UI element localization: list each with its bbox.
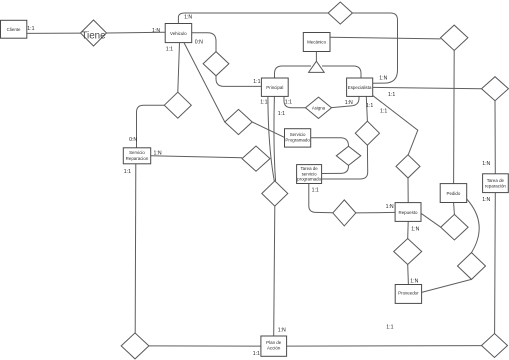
svg-text:1:N: 1:N <box>482 161 490 167</box>
relationship diamond D6 <box>328 2 352 24</box>
entity Especialista <box>347 78 373 96</box>
entity Pedido <box>440 184 467 203</box>
relationship diamond D11 <box>242 146 270 171</box>
wire Asigna to Especialista bottom <box>332 96 360 107</box>
svg-text:1:1: 1:1 <box>388 92 395 98</box>
wire Cliente-Tiene <box>27 32 81 34</box>
wire D6 to Especialista right <box>352 13 397 83</box>
svg-text:Acción: Acción <box>267 346 281 351</box>
svg-text:1:1: 1:1 <box>366 103 373 109</box>
ISA triangle <box>309 61 325 72</box>
svg-text:1:N: 1:N <box>411 226 419 232</box>
wire Vehiculo top to diamond D6 <box>178 13 328 24</box>
svg-text:1:N: 1:N <box>152 28 160 34</box>
svg-text:Servicio: Servicio <box>290 132 306 137</box>
svg-text:Especialista: Especialista <box>348 85 372 90</box>
relationship diamond D7 <box>441 25 468 50</box>
wire Especialista to D10 <box>366 96 367 121</box>
svg-text:Pedido: Pedido <box>446 191 460 196</box>
svg-text:1:N: 1:N <box>345 100 353 106</box>
svg-text:Asigna: Asigna <box>312 106 326 111</box>
svg-text:1:1: 1:1 <box>253 351 260 357</box>
wire Tiene-Vehiculo <box>107 31 166 34</box>
relationship Asigna <box>306 97 332 118</box>
wire D2 to Principal left <box>216 76 261 87</box>
wire Tarea servicio bottom to D13 <box>309 184 333 213</box>
wire D8 to Tarea reparacion top <box>494 101 496 174</box>
svg-text:1:N: 1:N <box>278 327 286 333</box>
svg-text:1:N: 1:N <box>386 204 394 210</box>
wire D18 to Plan right <box>287 345 482 348</box>
wire D4 to Servicio Programado <box>252 122 284 137</box>
wire D12 to Plan top <box>274 206 275 336</box>
wire triangle to Principal top <box>275 66 312 78</box>
entity Proveedor <box>395 285 421 304</box>
relationship diamond D10 <box>355 121 379 145</box>
relationship diamond D18 <box>482 334 508 358</box>
wire Vehiculo to D4 diagonal <box>184 43 225 122</box>
svg-text:1:N: 1:N <box>379 76 387 82</box>
relationship diamond D13 <box>333 200 356 226</box>
svg-text:1:1: 1:1 <box>27 26 34 32</box>
wire D7 to Pedido top <box>453 51 456 184</box>
svg-text:1:1: 1:1 <box>285 100 292 106</box>
svg-text:Servicio: Servicio <box>129 150 145 155</box>
relationship Tiene <box>81 20 107 46</box>
relationship diamond D3 <box>164 92 191 118</box>
entity Tarea de reparacion <box>483 174 509 193</box>
relationship diamond D2 <box>203 52 229 76</box>
svg-text:Tarea de: Tarea de <box>300 166 318 171</box>
svg-text:1:N: 1:N <box>184 14 192 20</box>
svg-text:1:N: 1:N <box>154 150 162 156</box>
wire Repuesto bottom to D17 <box>407 221 410 238</box>
wire Servicio Programado to D9 <box>311 138 349 147</box>
wire Pedido right to D16 curve <box>467 199 479 253</box>
svg-text:Vehiculo: Vehiculo <box>170 31 187 36</box>
wire Plan left to D19 <box>149 345 261 347</box>
wire D15 to Repuesto right <box>421 213 441 227</box>
svg-text:Tiene: Tiene <box>81 31 106 42</box>
relationship diamond D15 <box>441 214 468 240</box>
relationship diamond D9 <box>336 146 361 165</box>
wire Mecanico to triangle <box>315 52 317 62</box>
entity Vehiculo <box>165 24 192 43</box>
svg-text:Principal: Principal <box>266 85 283 90</box>
wire Vehiculo bottom to D3 <box>178 43 180 93</box>
svg-text:1:1: 1:1 <box>166 47 173 53</box>
svg-text:servicio: servicio <box>302 171 318 176</box>
wire D14 to Repuesto top <box>407 178 409 203</box>
wire triangle to Especialista top <box>322 66 361 78</box>
wire D19 to Servicio Reparacion bottom <box>134 164 137 333</box>
svg-text:0:N: 0:N <box>129 137 137 143</box>
wire D9 to Tarea servicio right upper <box>322 165 349 173</box>
svg-text:1:N: 1:N <box>482 197 490 203</box>
wire D10 to Tarea servicio right lower <box>322 145 368 179</box>
svg-text:1:1: 1:1 <box>260 100 267 106</box>
wire D3 to Servicio Reparacion top <box>137 105 165 148</box>
wire Principal to D12 double line a <box>268 96 274 181</box>
wire Servicio Reparacion to D11 <box>151 156 242 158</box>
wire Tarea reparacion bottom to D18 <box>494 193 497 334</box>
wire Vehiculo right to D2 <box>192 33 216 52</box>
svg-text:1:1: 1:1 <box>386 325 393 331</box>
svg-text:Reparacion: Reparacion <box>126 156 149 161</box>
svg-text:Mecánico: Mecánico <box>307 40 327 45</box>
svg-text:Plan de: Plan de <box>266 340 282 345</box>
svg-text:1:N: 1:N <box>410 278 418 284</box>
wire D17 to Proveedor top <box>407 265 410 285</box>
entity Plan de Accion <box>261 336 287 356</box>
svg-text:1:1: 1:1 <box>278 111 285 117</box>
relationship diamond D4 <box>225 109 252 134</box>
svg-text:programado: programado <box>297 177 321 182</box>
wire Especialista to elbow to D14 <box>373 96 418 155</box>
wire D13 to Repuesto left <box>356 211 395 214</box>
svg-text:reparación: reparación <box>485 183 506 188</box>
wire Especialista to D8 <box>373 87 482 88</box>
svg-text:1:1: 1:1 <box>312 188 319 194</box>
entity Repuesto <box>395 203 421 222</box>
svg-text:Proveedor: Proveedor <box>398 291 419 296</box>
entity Servicio Reparacion <box>123 148 150 164</box>
entity Mecanico <box>303 33 330 52</box>
relationship diamond D17 <box>394 239 422 265</box>
svg-text:Repuesto: Repuesto <box>399 210 419 215</box>
entity Principal <box>261 78 288 96</box>
wire D16 to Proveedor right <box>422 279 472 292</box>
relationship diamond D12 <box>262 181 288 206</box>
wire Principal to D12 double line b <box>274 96 276 181</box>
entity Servicio Programado <box>285 129 311 147</box>
svg-text:1:1: 1:1 <box>380 109 387 115</box>
relationship diamond D16 <box>458 253 486 280</box>
wire Mecanico to D7 <box>330 37 441 39</box>
entity Tarea de servicio programado <box>297 165 322 184</box>
svg-text:Cliente: Cliente <box>7 27 21 32</box>
svg-text:0:N: 0:N <box>195 39 203 45</box>
wire Principal to Asigna <box>284 96 306 107</box>
relationship diamond D19 <box>121 333 149 359</box>
svg-text:Tarea de: Tarea de <box>487 178 505 183</box>
svg-text:Programado: Programado <box>285 137 310 142</box>
relationship diamond D8 <box>482 77 509 101</box>
svg-text:1:1: 1:1 <box>124 169 131 175</box>
wire Pedido bottom to D15 <box>453 203 456 215</box>
svg-text:1:1: 1:1 <box>253 79 260 85</box>
relationship diamond D14 <box>396 155 420 178</box>
entity Cliente <box>1 20 27 38</box>
